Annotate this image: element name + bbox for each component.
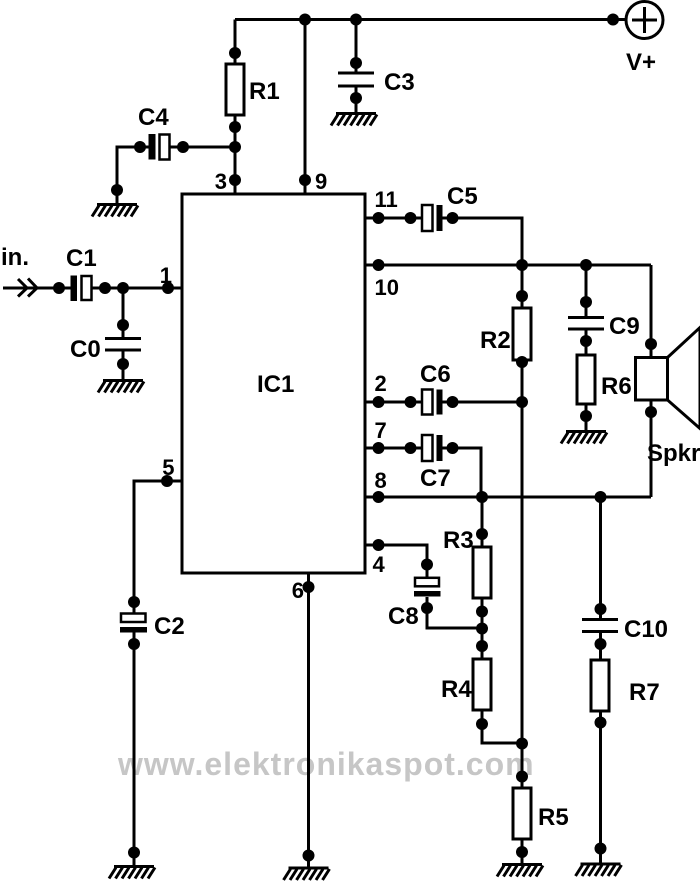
wire C1 to pin 1 <box>91 287 182 290</box>
svg-text:C3: C3 <box>384 69 415 96</box>
node R2/C6 junction <box>516 396 528 408</box>
node C8 top <box>421 559 433 571</box>
ground under R7 <box>576 864 622 876</box>
node top rail pin9 <box>299 14 311 26</box>
resistor R2 <box>513 308 531 360</box>
node V+ terminal <box>607 14 619 26</box>
node pin 1 <box>162 282 174 294</box>
node R7 ground <box>595 843 607 855</box>
capacitor C9 plates <box>568 318 604 330</box>
node R2 top terminal <box>516 290 528 302</box>
wire pin 5 to C2 <box>134 481 182 613</box>
wire R1 bottom to pin 3 <box>234 115 237 194</box>
svg-text:8: 8 <box>375 468 387 493</box>
wire pin 9 vertical <box>304 20 307 195</box>
svg-text:R5: R5 <box>538 804 569 831</box>
node pin 4 <box>373 539 385 551</box>
wire C9 top stub <box>585 265 588 317</box>
node C4/R1 junction <box>229 141 241 153</box>
node pin 10 <box>373 259 385 271</box>
wire speaker bottom <box>650 400 653 497</box>
node pin 2 <box>373 396 385 408</box>
svg-text:7: 7 <box>375 418 387 443</box>
wire pin 6 to ground <box>307 573 310 867</box>
node C2 bottom <box>128 638 140 650</box>
svg-text:5: 5 <box>162 455 174 480</box>
node top rail C3 <box>350 14 362 26</box>
node speaker top <box>645 338 657 350</box>
wire R2 top stub <box>521 265 524 308</box>
node R4/R5 junction <box>516 738 528 750</box>
node C9 junction <box>580 259 592 271</box>
svg-text:V+: V+ <box>626 49 656 76</box>
wire C5 to node at R2 top <box>443 218 523 265</box>
svg-text:R3: R3 <box>443 527 474 554</box>
wire R6 to ground <box>585 404 588 430</box>
capacitor C7 electrolytic <box>422 435 443 461</box>
node C5 left <box>405 212 417 224</box>
ground under C3 <box>331 114 377 126</box>
resistor R1 <box>226 64 244 115</box>
wire pin 11 to C5 <box>365 217 422 220</box>
capacitor C6 electrolytic <box>422 390 443 415</box>
wire pin 10 horizontal <box>365 264 651 267</box>
svg-text:C0: C0 <box>70 336 101 363</box>
IC1 body <box>182 194 365 573</box>
node R6 bottom <box>580 410 592 422</box>
svg-text:IC1: IC1 <box>257 371 294 398</box>
wire C8 bottom to R3 node <box>427 597 482 628</box>
svg-text:R2: R2 <box>480 327 511 354</box>
node C8 bottom <box>421 602 433 614</box>
wire pin 7 to C7 <box>365 447 422 450</box>
node pin 3 <box>229 174 241 186</box>
node C0 junction <box>117 282 129 294</box>
svg-text:R1: R1 <box>249 78 280 105</box>
node C2 ground <box>128 847 140 859</box>
wire R3 top stub <box>481 497 484 547</box>
ground under R6 <box>561 432 607 444</box>
ground under C4 <box>92 205 138 217</box>
svg-text:C10: C10 <box>624 616 668 643</box>
capacitor C2 electrolytic vertical <box>120 614 147 633</box>
svg-text:2: 2 <box>375 371 387 396</box>
node R1 bottom <box>229 121 241 133</box>
node C9 bottom <box>580 335 592 347</box>
svg-text:R7: R7 <box>629 679 660 706</box>
node C5 right <box>447 212 459 224</box>
node pin 7 <box>373 442 385 454</box>
node C3 bottom <box>350 92 362 104</box>
node pin 6 <box>303 581 315 593</box>
wire R4 bottom to R5 node <box>482 710 522 743</box>
node C7 left <box>405 442 417 454</box>
wire C0 top stub <box>122 288 125 338</box>
svg-text:in.: in. <box>1 244 29 271</box>
svg-text:C1: C1 <box>66 245 97 272</box>
node C1 right <box>99 282 111 294</box>
wire C6 to R2 bottom node <box>443 401 523 404</box>
wire pin 4 to C8 <box>365 545 427 577</box>
node C10 top <box>595 603 607 615</box>
wire top supply rail <box>235 18 625 21</box>
node R3 top <box>476 528 488 540</box>
node C4 left <box>134 141 146 153</box>
wire C3 top stub <box>355 20 358 74</box>
ground under C0 <box>98 381 144 393</box>
node C6 right <box>447 396 459 408</box>
wire C0 to ground <box>122 350 125 379</box>
node R2 top junction <box>516 259 528 271</box>
resistor R3 <box>473 547 491 598</box>
capacitor C8 electrolytic vertical <box>414 578 441 597</box>
wire C10 top stub <box>599 497 602 619</box>
svg-text:C9: C9 <box>609 313 640 340</box>
wire C7 to pin 8 net <box>443 448 482 497</box>
svg-text:C2: C2 <box>154 613 185 640</box>
node R3 bottom <box>476 606 488 618</box>
capacitor C10 plates <box>582 620 618 632</box>
speaker Spkr <box>636 328 700 429</box>
node R5 top <box>516 771 528 783</box>
svg-text:C8: C8 <box>388 603 419 630</box>
node speaker bottom <box>645 406 657 418</box>
node pin 5 <box>161 475 173 487</box>
node R4 bottom <box>476 718 488 730</box>
wire R5 bottom to ground <box>521 839 524 863</box>
capacitor C0 plates <box>105 339 141 351</box>
capacitor C3 plates <box>338 73 374 86</box>
wire C2 to ground <box>133 633 136 866</box>
node pin 9 <box>299 174 311 186</box>
node C3 top <box>350 57 362 69</box>
capacitor C5 electrolytic <box>422 205 443 231</box>
input arrow chevrons <box>18 279 37 297</box>
node C6 left <box>405 396 417 408</box>
node R5 bottom <box>516 846 528 858</box>
wire C3 to ground <box>355 86 358 113</box>
node C10/pin8 junction <box>595 491 607 503</box>
wire input to C1 <box>3 287 71 290</box>
node C8/R3 junction <box>476 623 488 635</box>
node C7 right <box>447 442 459 454</box>
node C2 top <box>128 596 140 608</box>
node R1 top <box>229 47 241 59</box>
wire C4 left to ground <box>117 147 149 203</box>
node C10 bottom <box>595 638 607 650</box>
capacitor C1 electrolytic <box>71 276 92 302</box>
wire R2 bottom long vertical to R5 <box>521 360 524 788</box>
svg-text:6: 6 <box>292 578 304 603</box>
svg-text:1: 1 <box>160 263 172 288</box>
pin number labels <box>160 169 399 603</box>
resistor R6 <box>577 355 595 404</box>
node C4 ground side <box>111 184 123 196</box>
svg-text:www.elektronikaspot.com: www.elektronikaspot.com <box>117 746 535 782</box>
capacitor C4 electrolytic <box>149 134 170 160</box>
wire C10 to R7 <box>599 631 602 660</box>
node C4 right <box>177 141 189 153</box>
resistor R7 <box>591 660 609 711</box>
svg-text:3: 3 <box>215 169 227 194</box>
wire R7 to ground <box>599 711 602 863</box>
svg-text:Spkr: Spkr <box>647 440 700 467</box>
wire pin 2 to C6 <box>365 401 422 404</box>
svg-text:C5: C5 <box>447 183 478 210</box>
ground under pin 6 <box>284 868 330 880</box>
svg-text:9: 9 <box>315 169 327 194</box>
ground under C2 <box>109 867 155 879</box>
svg-text:10: 10 <box>375 275 399 300</box>
resistor R5 <box>513 788 531 839</box>
svg-text:R6: R6 <box>601 373 632 400</box>
node C7/pin8 junction <box>476 491 488 503</box>
svg-text:11: 11 <box>375 187 398 212</box>
node pin 8 <box>373 491 385 503</box>
svg-text:C6: C6 <box>420 361 451 388</box>
node input <box>53 282 65 294</box>
wire C4 right to R1 node <box>170 146 235 149</box>
svg-text:C7: C7 <box>420 465 451 492</box>
V+ source circle <box>626 2 663 39</box>
wire speaker top <box>650 265 653 358</box>
svg-text:4: 4 <box>373 552 386 577</box>
node C9 top <box>580 296 592 308</box>
node R2 bottom terminal <box>516 356 528 368</box>
node C0 bottom <box>117 358 129 370</box>
wire C9 to R6 <box>585 329 588 355</box>
node pin 6 ground <box>303 850 315 862</box>
wire pin 8 horizontal <box>365 496 651 499</box>
resistor R4 <box>473 659 491 710</box>
svg-text:R4: R4 <box>441 676 472 703</box>
ground under R5 <box>497 865 543 877</box>
node C0 top <box>117 319 129 331</box>
node R7 bottom <box>595 717 607 729</box>
node pin 11 <box>373 212 385 224</box>
node R4 top <box>476 640 488 652</box>
wire R1 top stub <box>234 20 237 65</box>
wire R3 bottom to R4 top <box>481 598 484 659</box>
svg-text:C4: C4 <box>138 104 169 131</box>
